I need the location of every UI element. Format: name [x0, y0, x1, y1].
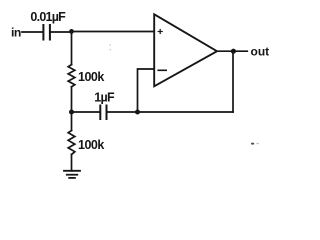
wire node C to output rail corner	[138, 111, 234, 113]
resistor R1	[68, 65, 75, 87]
junction node D	[231, 49, 236, 54]
capacitor C1 0.01uF plates	[43, 25, 50, 40]
svg-text:out: out	[251, 45, 270, 59]
op-amp minus input marker	[158, 69, 166, 71]
junction node C	[135, 110, 140, 115]
junction node A	[69, 29, 74, 34]
junction node B	[69, 110, 74, 115]
wire node B to C2	[72, 111, 100, 113]
capacitor C2 1uF plates	[100, 106, 106, 120]
scan speck above out area	[251, 143, 259, 145]
wire C2 to node C	[108, 111, 138, 113]
svg-text:100k: 100k	[78, 138, 104, 152]
feedback wire node C up to op-amp minus input	[138, 69, 155, 112]
svg-text:in: in	[11, 25, 21, 39]
op-amp plus input marker	[158, 30, 162, 34]
svg-text:100k: 100k	[78, 70, 104, 84]
wire R1 to node B	[71, 87, 73, 112]
wire op-amp output to node D	[217, 50, 247, 52]
resistor R2	[68, 131, 75, 155]
wire node B down to R2	[71, 112, 73, 131]
ground	[64, 171, 80, 178]
svg-text:1µF: 1µF	[94, 91, 115, 105]
wire output rail vertical	[232, 51, 234, 112]
op-amp U1 triangle	[154, 14, 217, 86]
svg-text:0.01µF: 0.01µF	[30, 10, 66, 24]
wire R2 to ground	[71, 155, 73, 171]
wire node A to op-amp + input	[72, 31, 155, 33]
wire C1 to node A	[51, 31, 72, 33]
wire in to C1	[22, 31, 43, 33]
wire node A down to R1	[71, 32, 73, 65]
scan speck near node between wires	[109, 44, 111, 50]
